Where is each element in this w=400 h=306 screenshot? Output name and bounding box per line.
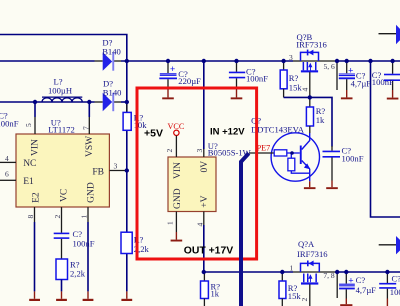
resistor R8 15k bottom (279, 272, 301, 306)
svg-text:GND: GND (87, 182, 97, 203)
svg-text:+: + (170, 65, 175, 75)
ground (231, 97, 243, 99)
svg-text:4: 4 (196, 223, 205, 227)
svg-text:VIN: VIN (173, 162, 183, 179)
wire (126, 130, 128, 232)
svg-text:100µH: 100µH (48, 86, 72, 96)
wire bottom rail y=272 (204, 271, 293, 273)
svg-text:1k: 1k (316, 115, 325, 125)
svg-text:7: 7 (82, 126, 91, 130)
wire long vertical x=370.5 (371, 61, 400, 217)
pin FB 3 (92, 162, 126, 178)
ground E2 (29, 299, 40, 301)
transistor Q2B IRF7316 (289, 32, 335, 92)
svg-text:1k: 1k (211, 289, 220, 299)
wire stub x=337 (336, 61, 338, 90)
ground FB chain (121, 299, 132, 301)
wire Q2B source stem (309, 72, 311, 97)
svg-text:IRF7316: IRF7316 (297, 249, 328, 259)
svg-text:4: 4 (301, 88, 310, 92)
pin VSW 7 (82, 102, 95, 157)
wire (95, 101, 103, 103)
svg-text:100nF: 100nF (372, 77, 394, 87)
svg-text:E2: E2 (32, 192, 42, 203)
svg-text:PE7: PE7 (257, 143, 271, 152)
resistor R4 1k (306, 97, 325, 133)
ground bottom 4,7uF partial (340, 304, 352, 306)
wire (114, 101, 121, 103)
wire gate node y=97.4 (284, 97, 332, 146)
svg-text:+5V: +5V (144, 128, 163, 140)
pin E1 6 (0, 170, 34, 188)
svg-text:IRF7316: IRF7316 (296, 40, 327, 50)
svg-text:100nF: 100nF (73, 239, 95, 249)
svg-text:+: + (348, 277, 353, 287)
diode D3 top right edge (379, 25, 400, 44)
IC U2 LT1172 pins and texts (48, 118, 75, 135)
svg-text:NC: NC (23, 159, 36, 169)
capacitor C7 100nF top right (372, 61, 400, 98)
svg-text:IN +12V: IN +12V (210, 126, 245, 137)
pin VC 2 (53, 189, 69, 233)
svg-text:100nF: 100nF (246, 74, 268, 84)
wire (293, 60, 301, 62)
wire Q4A stem (309, 284, 311, 306)
svg-text:0V: 0V (200, 161, 210, 173)
wire (114, 60, 121, 62)
red highlight box (137, 88, 257, 259)
svg-text:B140: B140 (103, 88, 122, 98)
resistor R5 2,2k at VC (56, 259, 86, 299)
svg-text:E1: E1 (23, 177, 34, 187)
wire (301, 60, 338, 62)
ground B0505S (171, 240, 183, 242)
capacitor C2 220uF (159, 61, 201, 97)
wire horizontal +12V rail y=61 (0, 60, 95, 62)
wire (121, 60, 293, 62)
ground GND pin (83, 299, 94, 301)
svg-text:C?: C? (356, 275, 366, 285)
svg-text:4,7µF: 4,7µF (356, 285, 377, 295)
transistor Q3 DDTC143EVA (249, 116, 319, 182)
capacitor C5 100nF mid (323, 146, 364, 188)
svg-text:VC: VC (59, 189, 69, 202)
ground (326, 187, 338, 189)
diode D4 bottom right edge (379, 236, 400, 254)
wire stub x=337.2 bottom (336, 272, 338, 298)
pin GND 1 (166, 188, 184, 239)
transistor Q4A IRF7316 (290, 239, 335, 302)
wire (203, 149, 205, 157)
svg-text:1: 1 (290, 264, 294, 273)
wire top-left to vertical drop (0, 35, 127, 62)
svg-text:5: 5 (24, 123, 33, 127)
resistor R7 1k bottom (201, 272, 221, 306)
svg-text:2: 2 (53, 215, 62, 219)
svg-text:5, 6: 5, 6 (324, 62, 336, 71)
svg-text:7, 8: 7, 8 (323, 271, 335, 280)
ground Q3 emitter (309, 181, 311, 187)
pin NC 4 (0, 154, 36, 169)
svg-text:100nF: 100nF (390, 287, 400, 297)
svg-text:GND: GND (173, 188, 183, 209)
IC U2 LT1172 body (16, 134, 109, 207)
pin 0V 3 (195, 149, 210, 173)
svg-text:6: 6 (5, 170, 9, 179)
svg-text:R?: R? (134, 235, 144, 245)
svg-text:+: + (348, 66, 353, 76)
IC U3 B0505S pins and texts (208, 141, 252, 157)
svg-text:8: 8 (26, 215, 35, 219)
wire (126, 254, 128, 292)
svg-text:OUT +17V: OUT +17V (184, 246, 233, 257)
inductor L1 100uH (42, 77, 82, 103)
svg-text:C?: C? (73, 229, 83, 239)
resistor R6 2,2k at FB chain (121, 232, 150, 299)
wire (293, 271, 335, 273)
wire (121, 101, 127, 103)
ground (341, 97, 353, 99)
pin +V 4 (196, 195, 210, 272)
pin E2 8 (26, 192, 42, 299)
capacitor C9 4,7uF bottom (339, 272, 376, 304)
svg-text:3: 3 (289, 53, 293, 62)
svg-text:LT1172: LT1172 (48, 124, 75, 134)
pin GND 1 (80, 182, 97, 299)
svg-text:100nF: 100nF (0, 119, 19, 129)
wire (337, 60, 400, 62)
svg-text:R?: R? (289, 73, 299, 83)
svg-text:VSW: VSW (85, 136, 95, 157)
diode D2 B140 lower (103, 79, 122, 112)
svg-text:220µF: 220µF (178, 76, 201, 86)
wire MOSFET row black segments (95, 60, 103, 62)
svg-text:1: 1 (166, 221, 175, 225)
svg-text:100nF: 100nF (342, 154, 364, 164)
ground (387, 98, 399, 100)
svg-text:2: 2 (165, 149, 174, 153)
capacitor C8 100nF at VC (54, 229, 95, 259)
svg-text:VIN: VIN (31, 139, 41, 156)
pin VIN 5 (24, 102, 41, 156)
svg-text:1: 1 (80, 215, 89, 219)
IC U3 B0505S-1W body (168, 157, 216, 212)
wire (335, 271, 400, 273)
wire thick output net (241, 153, 249, 306)
capacitor C10 100nF bottom right (379, 272, 400, 306)
diode D1 B140 upper (102, 38, 121, 71)
ground (162, 97, 174, 99)
svg-text:C?: C? (392, 274, 400, 284)
wire vertical feedback chain x=126.8 (126, 61, 128, 112)
svg-text:3: 3 (195, 149, 204, 153)
pin VIN 2 (165, 149, 183, 180)
ground VC chain (56, 299, 67, 301)
label C? 100nF clipped left edge (0, 111, 19, 129)
svg-text:2: 2 (300, 298, 309, 302)
resistor R3 15k upper (280, 61, 302, 97)
capacitor C6 4.7uF (339, 61, 371, 97)
svg-text:+V: +V (200, 195, 210, 207)
svg-text:FB: FB (92, 168, 104, 178)
wire inductor row y=102 (0, 101, 95, 103)
resistor R1 10k (123, 102, 147, 130)
svg-text:2,2k: 2,2k (70, 269, 86, 279)
svg-text:3: 3 (114, 162, 118, 171)
svg-text:Q?A: Q?A (298, 239, 315, 249)
capacitor C3 100nF (229, 61, 268, 97)
svg-text:4,7µF: 4,7µF (351, 78, 372, 88)
power VCC (168, 122, 185, 157)
svg-text:B140: B140 (102, 47, 121, 57)
wire 0V drop x=204 (203, 61, 205, 149)
svg-text:4: 4 (5, 154, 9, 163)
